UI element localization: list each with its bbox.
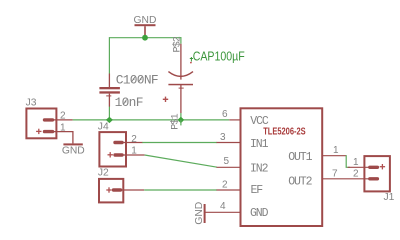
svg-text:VCC: VCC [250,115,269,128]
IC pin 5 stub (IN2) [217,166,242,168]
svg-text:J4: J4 [98,121,109,132]
wire J3 pin1 to ground [72,131,74,143]
svg-text:1: 1 [333,145,339,156]
svg-text:5: 5 [223,156,229,167]
svg-text:TLE5206-2S: TLE5206-2S [263,127,306,138]
capacitor C2 (polarized electrolytic) [163,44,193,113]
svg-text:1: 1 [60,122,66,133]
connector J4 [98,121,145,166]
svg-text:J2: J2 [98,167,109,178]
svg-text:P$2: P$2 [171,36,183,52]
IC pin 2 stub (EF) [217,189,242,191]
polarity mark + of J2 [106,189,111,191]
J3 pin 1 [45,130,53,133]
junction at top GND stem [142,35,148,41]
J1 pin 2 [370,177,378,180]
svg-text:1: 1 [353,157,359,168]
polarity mark + of J3 [36,130,41,132]
IC pin 3 stub (IN1) [217,142,242,144]
capacitor C1 [99,72,158,110]
J3 pin 2 [45,118,53,121]
svg-text:IN1: IN1 [250,138,269,151]
svg-text:IN2: IN2 [250,162,269,175]
IC pin 4 stub (GND) wire to ground [205,211,242,213]
J2 body [99,179,123,203]
wire IN1 net (J4 pin2 to IC pin3) [142,142,217,144]
IC pin 1 stub (OUT1) [322,155,347,157]
value label CAP100uF [190,50,245,64]
wire top horizontal (C1 to C2 top) [109,37,181,39]
svg-text:J1: J1 [384,192,395,203]
svg-text:GND: GND [62,146,85,157]
J4 pin 1 [115,153,122,156]
svg-text:2: 2 [60,110,66,121]
J2 pin 1 [114,188,121,191]
svg-text:2: 2 [131,134,137,145]
wire left vertical upper (to C1 top pin) [108,37,110,73]
J4 body [99,132,126,166]
ground symbol GND (top, at net VCC filter) [134,15,157,38]
wire right vertical upper (to C2 top pin) [180,37,182,44]
connector J3 [26,98,73,139]
svg-text:6: 6 [222,109,228,120]
connector J1 [348,156,395,203]
U1 body [241,108,323,226]
svg-text:J3: J3 [26,98,37,109]
svg-text:GND: GND [194,202,205,225]
connector J2 [98,167,144,202]
svg-text:7: 7 [332,169,338,180]
junction VCC net at C2 branch [178,117,185,124]
J1 pin 1 [370,166,378,169]
svg-text:GND: GND [250,207,269,220]
svg-text:OUT2: OUT2 [288,176,312,189]
svg-text:10nF: 10nF [115,95,143,110]
svg-text:1: 1 [131,146,137,157]
svg-text:CAP100µF: CAP100µF [193,50,245,64]
wire IN2 net diagonal (J4 pin1 to IC pin5) [145,155,217,167]
svg-text:P$1: P$1 [169,113,181,129]
J1 body [364,156,390,191]
J3 body [26,109,56,139]
svg-text:OUT1: OUT1 [288,151,312,164]
wire VCC net horizontal (J3 pin2 to IC pin6) [73,119,230,121]
junction VCC net at C1 branch [106,117,113,123]
svg-text:4: 4 [220,201,226,212]
polarity mark + of J1 [380,166,385,168]
wire stub below C2 junction [180,120,182,126]
ground symbol GND at IC pin 4 (rotated 90) [194,202,205,225]
IC pin 6 stub (VCC) [229,119,241,121]
ground symbol GND at J3 [62,143,85,156]
polarity mark + of C2 [163,98,168,100]
wire OUT1 net (IC pin1 to J1 pin1) [346,156,350,168]
polarity mark + of J4 [108,154,113,156]
svg-text:C100NF: C100NF [116,72,158,87]
wire left vertical lower (C1 bottom pin to VCC net) [108,107,110,121]
svg-text:2: 2 [353,169,359,180]
IC U1 TLE5206-2S [241,108,323,226]
svg-text:2: 2 [222,180,228,191]
wire right vertical lower (C2 bottom pin to VCC net) [180,113,182,121]
svg-text:EF: EF [251,184,264,197]
IC pin 7 stub (OUT2) wire to J1 pin2 [322,178,370,180]
svg-text:3: 3 [220,132,226,143]
wire EF net (J2 pin1 to IC pin2) [144,189,217,191]
J4 pin 2 [115,141,122,144]
